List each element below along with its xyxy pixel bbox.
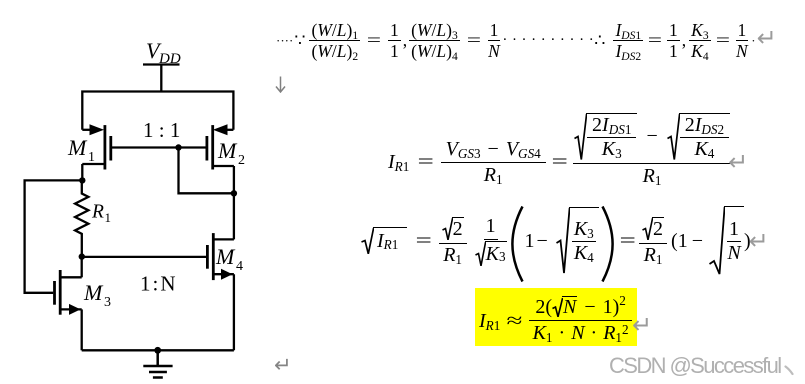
wire ground rail: [82, 349, 234, 351]
svg-text:1:N: 1:N: [140, 272, 178, 296]
wire R1 bottom to M4 gate: [82, 256, 206, 258]
label M2: [217, 138, 245, 168]
transistor M4 (NMOS): [207, 233, 234, 350]
svg-text:4: 4: [236, 259, 243, 274]
svg-text:M: M: [67, 135, 88, 160]
svg-text:M: M: [83, 280, 104, 305]
svg-text:1 : 1: 1 : 1: [143, 118, 180, 142]
return mark near circuit bottom: [274, 353, 292, 378]
label R1: [91, 202, 111, 226]
svg-text:1: 1: [88, 150, 95, 165]
svg-text:1: 1: [105, 210, 112, 225]
watermark: [609, 353, 781, 379]
down arrow formatting mark: [275, 76, 286, 93]
wire gate bus M1-M2: [111, 146, 207, 148]
power VDD label: [146, 38, 181, 67]
node ground junction: [154, 347, 161, 354]
svg-text:2: 2: [238, 153, 245, 168]
svg-text:3: 3: [104, 295, 111, 310]
svg-text:M: M: [215, 244, 236, 269]
label M4: [215, 244, 243, 274]
label M3: [83, 280, 111, 310]
node R1 bottom: [79, 253, 85, 259]
wire M1 drain to M3 gate (feedback): [25, 180, 83, 292]
resistor R1: [75, 180, 88, 256]
node M1 drain: [79, 177, 85, 183]
transistor M2 (PMOS, diode-connected): [207, 124, 234, 169]
transistor M1 (PMOS): [82, 124, 111, 180]
transistor M3 (NMOS): [55, 257, 82, 351]
wire M2 drain to M4 drain: [233, 166, 235, 239]
node M2 drain junction: [231, 190, 237, 196]
big right paren: [600, 205, 616, 283]
label M1: [67, 135, 95, 165]
svg-text:R: R: [91, 202, 104, 223]
node gate junction: [175, 144, 181, 150]
ground: [143, 350, 172, 377]
power VDD bar: [143, 63, 180, 65]
wire top rail: [82, 92, 233, 130]
svg-text:M: M: [217, 138, 238, 163]
wire M2 gate feedback: [179, 148, 234, 194]
big left paren: [509, 205, 525, 283]
wire VDD stem: [160, 65, 162, 92]
